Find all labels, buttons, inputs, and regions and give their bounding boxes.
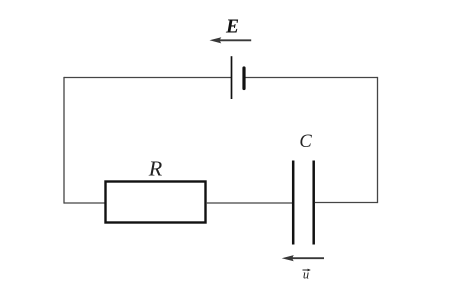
resistor R1 box bbox=[106, 182, 206, 223]
svg-text:C: C bbox=[299, 132, 312, 152]
battery E left plate (long thin) bbox=[231, 56, 233, 99]
svg-text:E: E bbox=[225, 17, 239, 38]
capacitor C1 right plate bbox=[312, 161, 315, 245]
label u with vector arrow bbox=[303, 268, 311, 282]
wire top-left (battery left lead) bbox=[64, 77, 232, 79]
wire bottom-left to resistor bbox=[64, 202, 105, 204]
wire left vertical bbox=[63, 77, 65, 204]
wire top-right (battery right lead) bbox=[244, 77, 378, 79]
wire right vertical bbox=[377, 77, 379, 203]
svg-text:R: R bbox=[148, 157, 163, 181]
wire capacitor to right bbox=[315, 202, 378, 204]
capacitor C1 left plate bbox=[292, 161, 295, 245]
arrow for u (pointing left, below capacitor) bbox=[282, 255, 324, 261]
arrow for E (pointing left) bbox=[210, 37, 252, 43]
wire resistor to capacitor bbox=[206, 202, 292, 204]
battery E right plate (short thick) bbox=[242, 68, 245, 89]
